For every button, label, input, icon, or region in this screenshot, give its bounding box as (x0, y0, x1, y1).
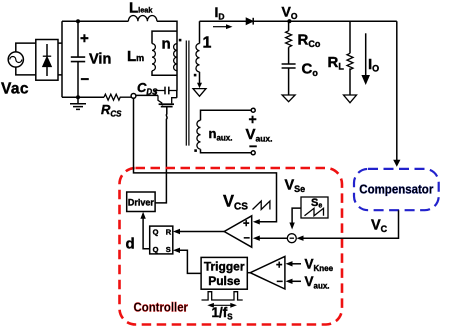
arrow VC into summer (297, 236, 304, 241)
svg-text:Vaux.: Vaux. (305, 274, 330, 291)
node Vin top (76, 19, 80, 23)
svg-text:−: − (277, 276, 283, 288)
op-amp U2 (knee comparator) (250, 256, 285, 289)
svg-text:1: 1 (203, 35, 212, 52)
svg-text:RCS: RCS (101, 102, 122, 119)
svg-text:+: + (249, 111, 257, 127)
svg-text:ID: ID (215, 4, 225, 22)
transformer secondary winding 1 (196, 21, 200, 83)
arrow IO (361, 33, 370, 85)
svg-text:+: + (243, 218, 249, 230)
wire Se to summer (292, 208, 301, 223)
clock waveform 1/fs (202, 292, 243, 300)
node VCS sense (open circle) (131, 94, 136, 99)
svg-text:Vac: Vac (1, 81, 29, 98)
inductor Lm (152, 31, 177, 75)
arrow into latch R (173, 229, 180, 234)
wire VKnee input (291, 263, 301, 265)
secondary polarity dot (194, 74, 197, 77)
compensator boundary (blue dashed) (354, 169, 439, 210)
svg-text:Controller: Controller (134, 300, 189, 315)
svg-text:+: + (80, 30, 89, 47)
svg-text:d: d (126, 236, 135, 253)
arrow Vaux (286, 279, 293, 284)
arrow into driver (140, 212, 145, 219)
svg-text:Q: Q (153, 228, 159, 237)
arrow into compensator (393, 160, 400, 167)
aux polarity dot (194, 149, 197, 152)
op-amp U1 (PWM comparator) (224, 216, 252, 247)
transformer core (186, 41, 189, 146)
svg-text:−: − (81, 71, 90, 88)
ground (input side) (70, 97, 86, 109)
wire feedback right side (396, 21, 398, 160)
SR latch (150, 226, 173, 254)
wire summer to comparator minus (259, 237, 287, 239)
ground (secondary) (193, 89, 206, 97)
Se sawtooth icon (305, 208, 324, 216)
wire gate to driver (155, 107, 167, 203)
bridge rectifier (36, 40, 58, 81)
capacitor Vin (71, 21, 85, 97)
svg-text:Pulse: Pulse (208, 274, 240, 288)
wire trigger to latch S (179, 250, 202, 273)
VCS sawtooth icon (253, 201, 270, 210)
svg-text:−: − (244, 233, 250, 245)
ground (Co) (282, 95, 295, 102)
arrow fs period (double headed) (207, 303, 237, 308)
transistor Q1 (MOSFET) (158, 95, 177, 106)
svg-text:VC: VC (371, 218, 388, 235)
wire secondary top rail (200, 20, 247, 22)
wire VC from compensator (302, 210, 399, 238)
node Vin bottom (76, 95, 80, 99)
svg-text:VKnee: VKnee (305, 257, 334, 274)
svg-text:VCS: VCS (223, 193, 248, 213)
svg-text:Driver: Driver (128, 197, 155, 207)
svg-text:R: R (166, 228, 172, 237)
svg-text:IO: IO (368, 56, 379, 74)
inductor Lleak (128, 15, 157, 21)
summer (circled minus) (287, 234, 296, 243)
wire rectifier output to rails (58, 21, 62, 97)
arrow into latch S (173, 248, 180, 253)
aux terminal + (251, 108, 255, 112)
ac source Vac (8, 43, 36, 75)
svg-text:Vaux.: Vaux. (246, 126, 273, 144)
ground (RL) (344, 95, 357, 103)
svg-text:naux.: naux. (209, 126, 233, 143)
transformer primary winding n (174, 44, 177, 71)
svg-text:n: n (162, 36, 171, 53)
aux terminal - (251, 151, 255, 155)
svg-text:RL: RL (328, 54, 345, 72)
primary polarity dot (179, 39, 182, 42)
controller boundary (red dashed) (120, 168, 343, 325)
trigger pulse box (201, 257, 247, 289)
wire source line to MOSFET (136, 94, 158, 96)
arrow into PWM comparator minus (253, 236, 260, 241)
capacitor CDS (155, 87, 177, 96)
wire VCS sense from power stage (134, 98, 277, 222)
resistor RCS (104, 94, 131, 100)
Se box (301, 197, 328, 218)
arrow VKnee (286, 261, 293, 266)
transformer aux winding (197, 110, 253, 153)
wire output rail (253, 20, 397, 22)
arrow Se into summer (289, 223, 294, 230)
svg-text:VO: VO (282, 4, 298, 22)
svg-text:1/fS: 1/fS (212, 305, 234, 322)
resistor RCo (286, 21, 292, 64)
wire top rail right / drain line (157, 21, 177, 97)
driver box (127, 192, 155, 212)
svg-text:CDS: CDS (137, 80, 158, 97)
svg-text:Vin: Vin (89, 52, 111, 68)
svg-text:Co: Co (302, 61, 319, 79)
svg-text:Q: Q (153, 245, 159, 254)
svg-text:Lm: Lm (127, 48, 144, 65)
resistor RL (347, 21, 353, 95)
diode D1 (246, 18, 253, 25)
secondary ground arrow (197, 83, 202, 89)
svg-text:S: S (166, 245, 171, 254)
svg-text:Lleak: Lleak (129, 0, 153, 17)
svg-text:Trigger: Trigger (204, 260, 245, 274)
wire knee comparator output (247, 272, 250, 274)
wire bottom rail (62, 96, 104, 98)
wire comparator to latch R (179, 231, 225, 233)
svg-text:RCo: RCo (298, 32, 321, 50)
arrow into PWM comparator plus (253, 219, 260, 224)
arrow ID (213, 24, 233, 29)
wire top rail left (62, 20, 128, 22)
svg-text:Se: Se (311, 197, 322, 210)
node VO (287, 19, 291, 23)
wire Vaux input (291, 280, 301, 282)
capacitor Co (282, 64, 296, 95)
svg-text:+: + (276, 260, 282, 272)
wire latch to driver (143, 218, 150, 249)
svg-text:Compensator: Compensator (359, 183, 433, 197)
svg-text:VSe: VSe (285, 178, 306, 195)
